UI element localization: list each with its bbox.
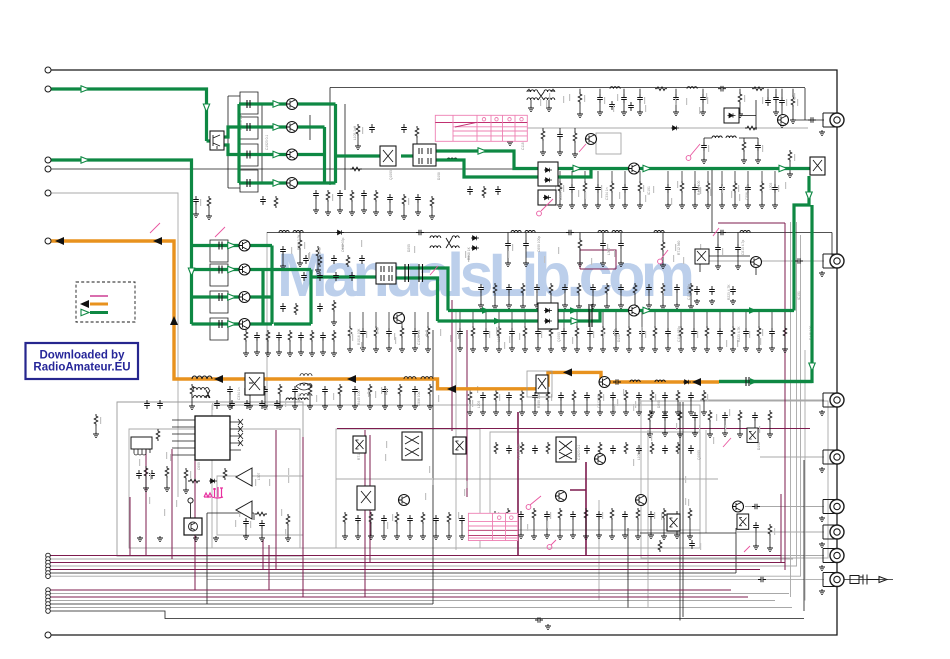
ground: [570, 533, 576, 539]
ground: [259, 536, 265, 542]
connector 6: [823, 525, 844, 539]
resistor R183: [648, 410, 652, 422]
value label: [308, 253, 309, 260]
capacitor C105: [700, 94, 706, 103]
svg-text:D108: D108: [437, 172, 441, 180]
wire green input B (terminal J5): [48, 160, 192, 324]
ground: [597, 410, 603, 416]
resistor R138: [248, 384, 252, 396]
transformer T1 crossed coils: [527, 89, 555, 100]
wire green diode box out lower: [558, 169, 591, 178]
value label: [617, 399, 618, 406]
ground: [637, 203, 643, 209]
resistor R112: [680, 181, 684, 193]
svg-text:R223 4.7K: R223 4.7K: [737, 326, 741, 342]
wire green rx run y310: [448, 309, 794, 312]
inductor L2 inline: [687, 87, 697, 89]
ground: [618, 303, 624, 309]
ground: [540, 150, 546, 156]
wire maroon bundle B3: [48, 596, 748, 598]
transistor box Q21: [357, 486, 375, 510]
capacitor C310: [618, 284, 624, 293]
pink handwriting left-bottom: [204, 487, 223, 498]
capacitor C391: [301, 272, 307, 281]
resistor R137: [190, 384, 194, 396]
inductor L18 inline on orange: [655, 380, 665, 382]
capacitor C140: [665, 328, 671, 337]
connector 3: [823, 393, 844, 407]
ground: [709, 299, 715, 305]
ground: [715, 264, 721, 270]
resistor R116: [578, 238, 582, 250]
wire orange main run: [48, 241, 536, 389]
value label: [387, 522, 388, 529]
capacitor C194: [692, 412, 698, 421]
svg-text:R309 2.2K: R309 2.2K: [537, 392, 541, 408]
capacitor C1 inline: [718, 86, 726, 92]
ground: [206, 214, 212, 220]
ground: [535, 346, 541, 352]
value label: [549, 93, 550, 100]
value label: [440, 329, 441, 336]
resistor R157: [144, 466, 148, 478]
wire gray connector feed y532: [737, 531, 824, 533]
value label: [593, 331, 594, 338]
capacitor C191: [648, 511, 654, 520]
capacitor C172: [355, 515, 361, 524]
capacitor C177: [506, 445, 512, 454]
capacitor C395: [694, 286, 700, 295]
capacitor C193: [662, 412, 668, 421]
resistor R114: [733, 181, 737, 193]
ground: [722, 431, 728, 437]
ground: [425, 347, 431, 353]
wire green collect bars lower: [263, 246, 272, 325]
capacitor C176: [459, 515, 465, 524]
svg-text:C556 10u: C556 10u: [745, 186, 749, 200]
value label: [651, 434, 652, 441]
ground: [674, 533, 680, 539]
value label: [601, 191, 602, 198]
ground: [613, 346, 619, 352]
mixer box U2: [380, 146, 396, 166]
ground: [767, 432, 773, 438]
ground: [459, 534, 465, 540]
ground: [600, 261, 606, 267]
resistor R120: [348, 326, 352, 338]
wire green tx vertical: [719, 205, 812, 382]
op-amp U8: [236, 468, 252, 486]
arrow black left on orange x158: [153, 237, 162, 245]
capacitor C3 inline: [566, 230, 574, 236]
svg-text:R223 4.7K: R223 4.7K: [559, 184, 563, 200]
capacitor C302: [276, 332, 282, 341]
ground: [373, 347, 379, 353]
capacitor C304: [320, 332, 326, 341]
value label: [342, 243, 343, 250]
connector 2: [823, 254, 844, 268]
resistor R102: [738, 92, 742, 104]
value label: [563, 185, 564, 192]
pink cut mark IF chain: [658, 250, 668, 264]
ground: [164, 486, 170, 492]
value label: [361, 342, 362, 349]
svg-text:Downloaded by: Downloaded by: [40, 350, 126, 362]
capacitor C127: [735, 244, 741, 253]
value label: [675, 244, 676, 251]
value label: [377, 327, 378, 334]
value label: [633, 459, 634, 466]
capacitor C5 inline on tx green: [746, 377, 749, 386]
resistor R132: [679, 326, 683, 338]
arrow black left on orange y379: [214, 375, 223, 383]
ground: [254, 350, 260, 356]
resistor R131: [653, 326, 657, 338]
ground: [227, 404, 233, 410]
capacitor C162: [149, 470, 155, 479]
ground: [707, 432, 713, 438]
value label: [316, 395, 317, 402]
ground: [342, 534, 348, 540]
value label: [633, 404, 634, 411]
capacitor C385: [359, 255, 365, 264]
value label: [794, 154, 795, 161]
resistor R159: [184, 468, 188, 480]
capacitor C397: [730, 286, 736, 295]
ground: [637, 110, 643, 116]
pink cut mark bottom-mid-2: [547, 540, 556, 549]
ground: [743, 346, 749, 352]
value label: [710, 189, 711, 196]
capacitor C125: [618, 240, 624, 249]
capacitor C106: [773, 94, 779, 103]
value label: [509, 336, 510, 343]
capacitor C164: [259, 520, 265, 529]
ground: [320, 350, 326, 356]
capacitor C2 inline: [416, 230, 424, 236]
value label: [255, 479, 256, 486]
ground: [700, 110, 706, 116]
value label: [438, 395, 439, 402]
ground: [285, 536, 291, 542]
ground: [660, 263, 666, 269]
ground: [523, 261, 529, 267]
resistor R200: [294, 303, 298, 315]
ground: [626, 347, 632, 353]
ground: [509, 346, 515, 352]
ground: [587, 346, 593, 352]
svg-text:R309 2.2K: R309 2.2K: [297, 234, 301, 250]
capacitor C117: [665, 184, 671, 193]
wire gray bundle A7: [48, 575, 801, 577]
wire gray bundle A4: [48, 565, 797, 567]
ground: [692, 203, 698, 209]
ground: [382, 404, 388, 410]
wire op-amp nets left block: [172, 420, 195, 455]
resistor R124: [471, 326, 475, 338]
ground: [767, 546, 773, 552]
value label: [469, 404, 470, 411]
svg-text:C412 33p: C412 33p: [597, 394, 601, 408]
capacitor C141: [691, 328, 697, 337]
wire maroon riser right x781: [780, 494, 782, 563]
value label: [722, 248, 723, 255]
ground: [732, 203, 738, 209]
resistor R149: [572, 390, 576, 402]
resistor R191: [274, 196, 278, 208]
inductor L7 inline: [598, 231, 608, 233]
value label: [591, 258, 592, 265]
ground: [577, 112, 583, 118]
transistor Q6: [239, 240, 250, 251]
resistor R175: [506, 508, 510, 520]
resistor R303: [288, 330, 292, 342]
wire green row1 lower: [192, 244, 273, 247]
capacitor bars on green rows lower block: [219, 242, 222, 329]
resistor R6 inline: [188, 479, 200, 483]
resistor R7 inline: [255, 512, 267, 516]
ground: [518, 533, 524, 539]
value label: [676, 423, 677, 430]
value label: [644, 97, 645, 104]
ground: [213, 536, 219, 542]
svg-text:L307: L307: [607, 247, 611, 255]
right edge coax connectors: [823, 113, 844, 587]
value label: [607, 244, 608, 251]
value label: [602, 512, 603, 519]
value label: [366, 331, 367, 338]
resistor R196: [430, 196, 434, 208]
svg-text:C118 470p: C118 470p: [687, 284, 691, 300]
capacitor C7 inline: [752, 504, 760, 510]
ground: [648, 533, 654, 539]
resistor R106: [791, 95, 795, 107]
svg-text:L307: L307: [257, 472, 261, 480]
transistor Q7: [239, 264, 250, 275]
ground: [701, 158, 707, 164]
ground: [782, 347, 788, 353]
value label: [655, 394, 656, 401]
resistor R185: [708, 410, 712, 422]
wire maroon bundle A5: [48, 569, 760, 571]
value label: [645, 105, 646, 112]
value label: [212, 403, 213, 410]
ground: [649, 410, 655, 416]
transistor Q5: [287, 178, 298, 189]
wire gray bundle B4: [48, 600, 775, 602]
resistor R160: [223, 468, 227, 480]
capacitor C381: [467, 186, 473, 195]
wire bottom bundle B7: [48, 611, 804, 619]
capacitor C144: [769, 328, 775, 337]
connector ANT: [823, 113, 844, 127]
value label: [685, 498, 686, 505]
value label: [352, 334, 353, 341]
resistor R201: [332, 300, 336, 312]
svg-text:R445 100: R445 100: [697, 181, 701, 195]
value label: [418, 331, 419, 338]
capacitor C108: [628, 102, 634, 111]
resistor R166: [447, 512, 451, 524]
resistor R143: [398, 384, 402, 396]
ground: [189, 404, 195, 410]
diode box D6: [538, 162, 558, 186]
value label: [716, 414, 717, 421]
ground: [745, 203, 751, 209]
arrow green hollow right on green input A: [81, 86, 89, 92]
resistor R197: [356, 124, 360, 136]
ground: [694, 299, 700, 305]
resistor R156: [156, 429, 160, 441]
resistor R158: [165, 466, 169, 478]
capacitor C103: [637, 94, 643, 103]
ground: [647, 432, 653, 438]
value label: [572, 337, 573, 344]
value label: [375, 391, 376, 398]
ground: [355, 144, 361, 150]
capacitor C131: [412, 328, 418, 337]
capacitor C312: [674, 284, 680, 293]
resistor R134: [731, 326, 735, 338]
mixer box U12: [453, 437, 466, 454]
resistor R165: [421, 512, 425, 524]
value label: [738, 185, 739, 192]
value label: [394, 333, 395, 340]
ground: [331, 351, 337, 357]
value label: [563, 96, 564, 103]
value label: [309, 252, 310, 259]
svg-text:C1023 0.1: C1023 0.1: [577, 445, 581, 460]
capacitor C209: [317, 303, 323, 312]
resistor R155: [94, 414, 98, 426]
capacitor C153: [506, 392, 512, 401]
ground: [506, 410, 512, 416]
wire gray mid line y479: [336, 478, 718, 480]
ground: [276, 350, 282, 356]
resistor R304: [310, 330, 314, 342]
value label: [504, 342, 505, 349]
value label: [499, 394, 500, 401]
capacitor bars on green rows upper block: [247, 100, 250, 187]
ground: [412, 346, 418, 352]
value label: [386, 388, 387, 395]
ground: [673, 110, 679, 116]
capacitor C396: [709, 286, 715, 295]
ground: [183, 488, 189, 494]
value label: [762, 329, 763, 336]
ground: [557, 150, 563, 156]
resistor R152: [650, 390, 654, 402]
terminal J1: [45, 67, 51, 73]
block outline left-bottom inner2: [217, 476, 303, 535]
wire green rx run y321: [438, 311, 601, 321]
capacitor C184: [688, 445, 694, 454]
ground: [397, 404, 403, 410]
connector 4: [823, 450, 844, 464]
ground: [532, 410, 538, 416]
value label: [683, 257, 684, 264]
capacitor C138: [613, 328, 619, 337]
svg-text:D205: D205: [407, 244, 411, 252]
resistor R186: [738, 410, 742, 422]
wire gray bundle B6: [48, 607, 792, 609]
wire green row3 lower: [192, 295, 273, 298]
svg-text:C118 470p: C118 470p: [677, 326, 681, 342]
svg-text:Q1005: Q1005: [697, 450, 701, 460]
inductor L6 inline: [525, 231, 535, 233]
ground: [548, 304, 554, 310]
ground: [679, 203, 685, 209]
ground: [137, 536, 143, 542]
transformer T4 crossed coils on orange: [296, 374, 312, 396]
wire green lower out: [272, 270, 311, 325]
transistor Q16 antenna: [778, 115, 789, 126]
value label: [285, 400, 286, 407]
value label: [778, 185, 779, 192]
ground: [528, 106, 534, 112]
transistor Q12: [629, 163, 640, 174]
wire gray bundle B2: [48, 593, 789, 595]
ground: [660, 304, 666, 310]
resistor R135: [757, 326, 761, 338]
ground: [429, 214, 435, 220]
resistor R4 inline: [350, 167, 362, 171]
inductor L10 inline: [740, 231, 750, 233]
value label: [527, 524, 528, 531]
wire top band drop right: [804, 88, 806, 120]
wire mid-bottom links: [207, 513, 736, 604]
ground: [546, 106, 552, 112]
svg-text:R223 4.7K: R223 4.7K: [727, 284, 731, 300]
ground: [470, 347, 476, 353]
capacitor C163: [243, 518, 249, 527]
ground: [741, 158, 747, 164]
value label: [653, 186, 654, 193]
ground: [597, 110, 603, 116]
capacitor C190: [622, 511, 628, 520]
value label: [239, 510, 240, 517]
capacitor C207: [401, 124, 407, 133]
value label: [414, 246, 415, 253]
ground: [691, 346, 697, 352]
resistor R167: [494, 442, 498, 454]
ground: [717, 346, 723, 352]
value label: [641, 327, 642, 334]
resistor R173: [650, 442, 654, 454]
ground: [753, 544, 759, 550]
resistor R177: [558, 508, 562, 520]
ground: [569, 203, 575, 209]
ground: [705, 203, 711, 209]
ground: [604, 304, 610, 310]
capacitor C136: [561, 328, 567, 337]
value label: [472, 400, 473, 407]
wire gray risers right side: [791, 222, 806, 601]
ground: [386, 346, 392, 352]
svg-text:R1016 10K: R1016 10K: [357, 328, 361, 345]
value label: [100, 417, 101, 424]
terminal J3: [45, 190, 51, 196]
capacitor C196: [752, 412, 758, 421]
value label: [139, 459, 140, 466]
value label: [426, 330, 427, 337]
ground: [399, 347, 405, 353]
resistor R154: [702, 390, 706, 402]
resistor R198: [415, 126, 419, 138]
value label: [731, 191, 732, 198]
inductor L1 inline: [610, 87, 620, 89]
ground: [297, 261, 303, 267]
